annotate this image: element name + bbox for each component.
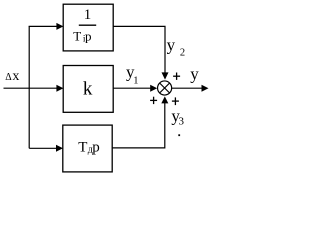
svg-text:1: 1 bbox=[133, 76, 138, 87]
svg-text:y: y bbox=[167, 36, 176, 55]
svg-text:x: x bbox=[12, 69, 19, 84]
svg-text:Δ: Δ bbox=[5, 72, 12, 83]
svg-text:1: 1 bbox=[84, 7, 92, 23]
svg-text:2: 2 bbox=[180, 47, 185, 58]
svg-text:y: y bbox=[190, 65, 199, 84]
svg-text:T: T bbox=[73, 28, 81, 43]
svg-text:k: k bbox=[83, 78, 93, 99]
svg-text:p: p bbox=[85, 28, 92, 43]
svg-text:p: p bbox=[92, 139, 100, 155]
svg-text:T: T bbox=[78, 139, 87, 155]
svg-text:3: 3 bbox=[179, 115, 185, 127]
